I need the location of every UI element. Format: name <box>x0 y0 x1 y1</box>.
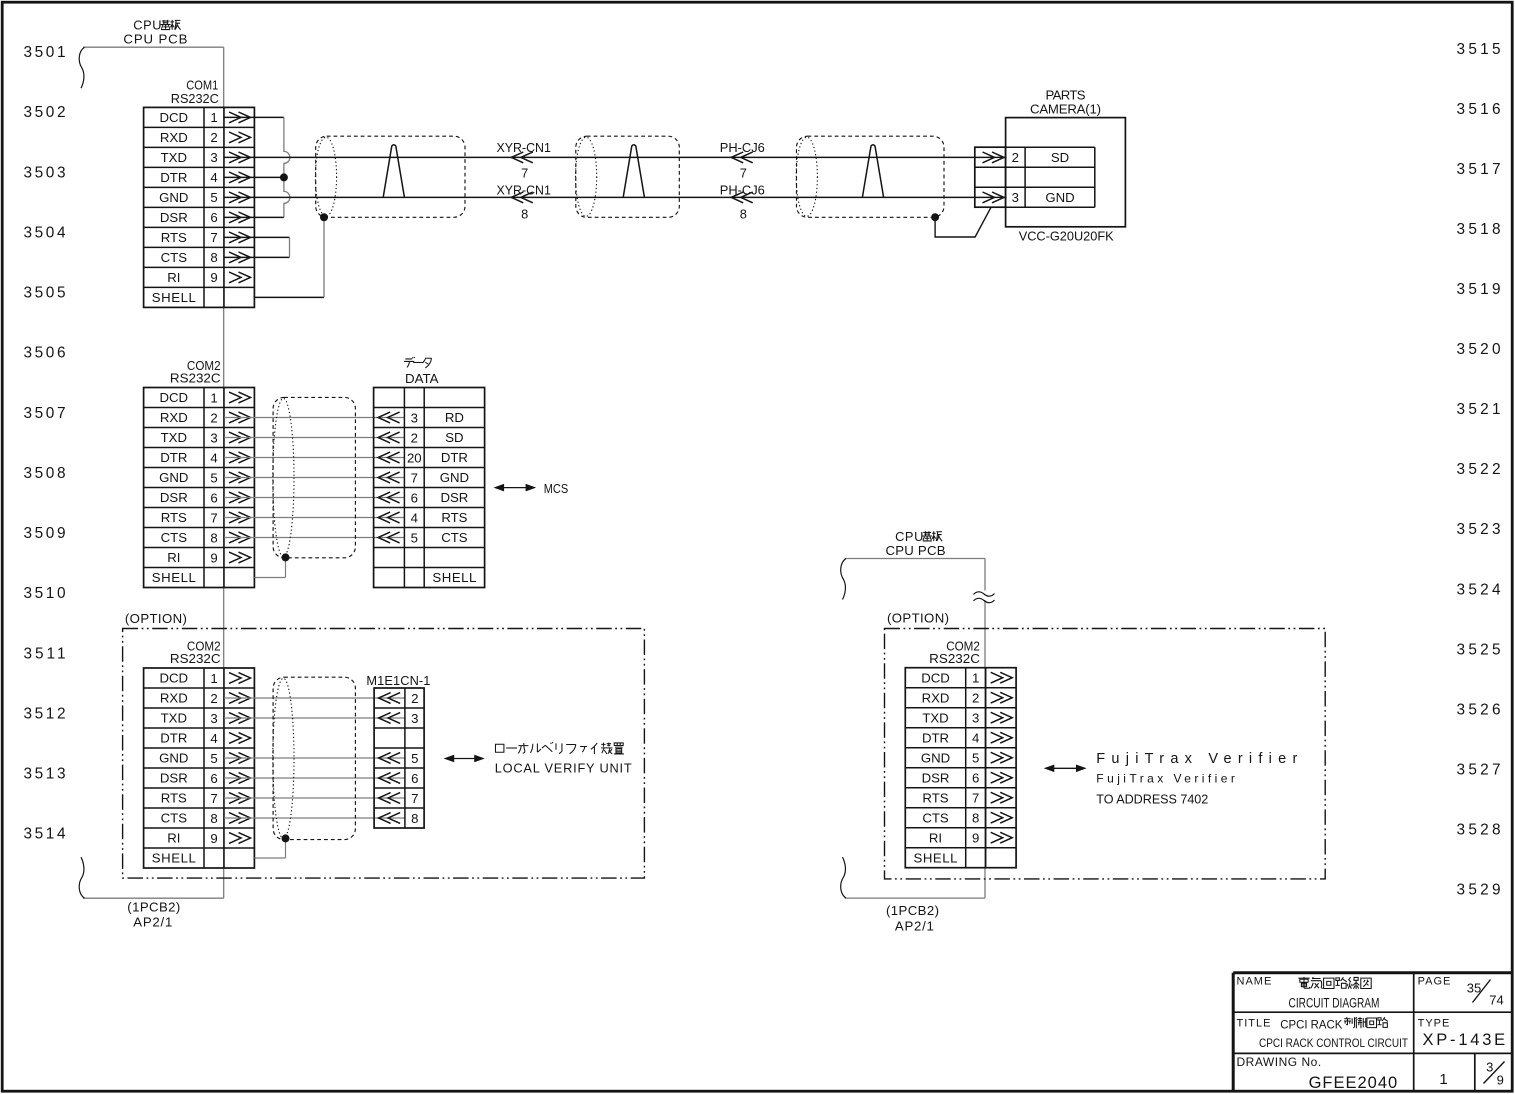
svg-text:2: 2 <box>210 130 217 145</box>
svg-text:CPCI RACK CONTROL CIRCUIT: CPCI RACK CONTROL CIRCUIT <box>1259 1036 1408 1050</box>
svg-text:RI: RI <box>167 270 180 285</box>
svg-text:RD: RD <box>445 410 464 425</box>
svg-text:3: 3 <box>411 711 418 726</box>
svg-text:8: 8 <box>972 811 979 826</box>
svg-text:RI: RI <box>929 830 942 845</box>
svg-text:5: 5 <box>210 751 217 766</box>
svg-text:5: 5 <box>210 470 217 485</box>
svg-text:TXD: TXD <box>161 150 187 165</box>
svg-text:4: 4 <box>210 450 217 465</box>
svg-text:CTS: CTS <box>922 810 949 825</box>
svg-text:5: 5 <box>411 751 418 766</box>
svg-text:PAGE: PAGE <box>1418 976 1452 988</box>
svg-text:TXD: TXD <box>161 711 187 726</box>
svg-text:GND: GND <box>159 470 188 485</box>
svg-text:DCD: DCD <box>921 670 950 685</box>
svg-text:PH-CJ6: PH-CJ6 <box>720 182 765 197</box>
svg-text:TXD: TXD <box>922 710 948 725</box>
svg-text:7: 7 <box>210 230 217 245</box>
svg-text:6: 6 <box>411 490 418 505</box>
svg-text:9: 9 <box>210 550 217 565</box>
svg-text:CIRCUIT DIAGRAM: CIRCUIT DIAGRAM <box>1289 995 1380 1010</box>
svg-text:DTR: DTR <box>160 450 187 465</box>
svg-text:M1E1CN-1: M1E1CN-1 <box>366 673 430 688</box>
svg-text:1: 1 <box>972 671 979 686</box>
svg-text:2: 2 <box>411 430 418 445</box>
svg-text:8: 8 <box>210 530 217 545</box>
svg-text:DSR: DSR <box>160 210 188 225</box>
svg-text:RS232C: RS232C <box>929 651 980 666</box>
svg-text:CPU PCB: CPU PCB <box>123 32 187 47</box>
svg-text:2: 2 <box>1012 150 1019 165</box>
svg-text:DTR: DTR <box>922 730 949 745</box>
svg-text:DTR: DTR <box>160 731 187 746</box>
svg-text:CPU PCB: CPU PCB <box>886 543 946 558</box>
svg-text:9: 9 <box>210 270 217 285</box>
svg-text:3: 3 <box>210 430 217 445</box>
svg-text:3: 3 <box>210 150 217 165</box>
svg-text:DSR: DSR <box>440 490 468 505</box>
svg-text:CTS: CTS <box>161 811 188 826</box>
svg-text:8: 8 <box>210 811 217 826</box>
svg-text:9: 9 <box>1497 1073 1504 1088</box>
svg-text:5: 5 <box>972 751 979 766</box>
svg-text:DCD: DCD <box>160 110 189 125</box>
svg-text:DRAWING No.: DRAWING No. <box>1237 1055 1322 1069</box>
svg-text:3: 3 <box>972 711 979 726</box>
svg-text:SD: SD <box>1051 150 1069 165</box>
svg-text:6: 6 <box>210 771 217 786</box>
svg-text:COM1: COM1 <box>186 77 218 92</box>
svg-text:CPU: CPU <box>133 18 162 33</box>
svg-text:1: 1 <box>210 390 217 405</box>
svg-text:GND: GND <box>921 750 950 765</box>
svg-text:8: 8 <box>740 206 747 221</box>
svg-text:LOCAL VERIFY UNIT: LOCAL VERIFY UNIT <box>495 761 632 776</box>
svg-text:4: 4 <box>210 731 217 746</box>
svg-text:RS232C: RS232C <box>171 91 219 106</box>
svg-text:4: 4 <box>972 731 979 746</box>
svg-text:7: 7 <box>972 791 979 806</box>
svg-text:CPU: CPU <box>895 529 924 544</box>
svg-text:5: 5 <box>210 190 217 205</box>
svg-text:9: 9 <box>210 831 217 846</box>
svg-text:RXD: RXD <box>160 410 188 425</box>
svg-text:3: 3 <box>411 410 418 425</box>
svg-text:RI: RI <box>167 831 180 846</box>
svg-text:7: 7 <box>210 791 217 806</box>
svg-text:GND: GND <box>1045 190 1074 205</box>
svg-text:3: 3 <box>210 711 217 726</box>
svg-text:8: 8 <box>210 250 217 265</box>
svg-text:CTS: CTS <box>161 530 188 545</box>
svg-text:CPCI RACK: CPCI RACK <box>1280 1018 1343 1032</box>
svg-text:6: 6 <box>210 490 217 505</box>
svg-text:GND: GND <box>159 751 188 766</box>
svg-text:TITLE: TITLE <box>1237 1017 1272 1029</box>
svg-text:2: 2 <box>411 691 418 706</box>
svg-text:2: 2 <box>210 410 217 425</box>
svg-text:(OPTION): (OPTION) <box>125 611 187 626</box>
svg-text:(1PCB2): (1PCB2) <box>886 903 939 918</box>
svg-text:RXD: RXD <box>160 130 188 145</box>
svg-text:RXD: RXD <box>160 691 188 706</box>
svg-text:RS232C: RS232C <box>170 651 221 666</box>
svg-text:DSR: DSR <box>160 771 188 786</box>
svg-text:XYR-CN1: XYR-CN1 <box>497 182 551 197</box>
svg-text:7: 7 <box>521 166 528 181</box>
svg-text:NAME: NAME <box>1237 976 1273 988</box>
svg-text:MCS: MCS <box>544 481 569 496</box>
svg-text:DATA: DATA <box>405 371 439 386</box>
svg-text:RTS: RTS <box>161 791 187 806</box>
svg-text:CTS: CTS <box>161 250 188 265</box>
svg-text:GND: GND <box>159 190 188 205</box>
svg-text:RTS: RTS <box>441 510 467 525</box>
svg-text:20: 20 <box>407 450 422 465</box>
svg-text:SHELL: SHELL <box>914 850 958 865</box>
svg-text:SD: SD <box>445 430 463 445</box>
svg-text:SHELL: SHELL <box>152 290 196 305</box>
svg-text:RTS: RTS <box>922 790 948 805</box>
svg-text:AP2/1: AP2/1 <box>895 918 934 933</box>
svg-text:CAMERA(1): CAMERA(1) <box>1030 102 1101 117</box>
svg-text:(1PCB2): (1PCB2) <box>127 900 180 915</box>
svg-text:DSR: DSR <box>160 490 188 505</box>
svg-text:RXD: RXD <box>922 690 950 705</box>
svg-text:7: 7 <box>411 791 418 806</box>
svg-text:74: 74 <box>1489 993 1503 1008</box>
svg-text:SHELL: SHELL <box>152 851 196 866</box>
svg-text:TXD: TXD <box>161 430 187 445</box>
svg-text:2: 2 <box>972 691 979 706</box>
svg-text:7: 7 <box>411 470 418 485</box>
svg-text:VCC-G20U20FK: VCC-G20U20FK <box>1019 229 1114 244</box>
svg-text:DTR: DTR <box>441 450 468 465</box>
svg-text:DTR: DTR <box>160 170 187 185</box>
svg-text:RI: RI <box>167 550 180 565</box>
svg-text:4: 4 <box>210 170 217 185</box>
svg-text:8: 8 <box>521 206 528 221</box>
svg-text:GND: GND <box>440 470 469 485</box>
svg-text:6: 6 <box>210 210 217 225</box>
svg-text:7: 7 <box>210 510 217 525</box>
svg-text:AP2/1: AP2/1 <box>133 914 172 929</box>
svg-text:2: 2 <box>210 691 217 706</box>
svg-text:RS232C: RS232C <box>170 371 221 386</box>
svg-text:SHELL: SHELL <box>152 570 196 585</box>
svg-text:XYR-CN1: XYR-CN1 <box>497 140 551 155</box>
svg-text:(OPTION): (OPTION) <box>887 611 949 626</box>
svg-text:9: 9 <box>972 831 979 846</box>
svg-text:GFEE2040: GFEE2040 <box>1309 1074 1398 1092</box>
svg-text:TYPE: TYPE <box>1418 1017 1451 1029</box>
svg-text:DCD: DCD <box>160 671 189 686</box>
svg-text:8: 8 <box>411 811 418 826</box>
svg-text:RTS: RTS <box>161 510 187 525</box>
svg-text:PARTS: PARTS <box>1046 88 1086 103</box>
svg-text:3: 3 <box>1012 190 1019 205</box>
svg-text:6: 6 <box>972 771 979 786</box>
svg-text:TO ADDRESS 7402: TO ADDRESS 7402 <box>1096 793 1208 807</box>
svg-text:1: 1 <box>210 671 217 686</box>
svg-text:3: 3 <box>1486 1060 1493 1075</box>
svg-text:SHELL: SHELL <box>432 570 476 585</box>
svg-text:CTS: CTS <box>441 530 468 545</box>
svg-text:1: 1 <box>210 110 217 125</box>
svg-text:1: 1 <box>1439 1071 1447 1088</box>
svg-text:DSR: DSR <box>922 770 950 785</box>
svg-text:7: 7 <box>740 166 747 181</box>
svg-text:DCD: DCD <box>160 390 189 405</box>
svg-text:RTS: RTS <box>161 230 187 245</box>
svg-text:6: 6 <box>411 771 418 786</box>
svg-text:5: 5 <box>411 530 418 545</box>
svg-text:4: 4 <box>411 510 418 525</box>
